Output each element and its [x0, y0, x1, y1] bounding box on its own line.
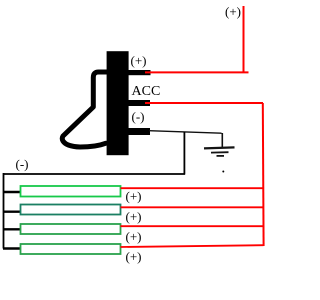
- switch pin (+) terminal stub: [128, 70, 151, 75]
- svg-text:(+): (+): [131, 53, 147, 68]
- wire (-) branch vertical down: [183, 132, 185, 175]
- switch pin (-) terminal stub: [128, 128, 150, 135]
- wire stub to tube 1: [3, 191, 21, 193]
- svg-text:(-): (-): [132, 109, 145, 124]
- svg-text:(+): (+): [126, 249, 142, 264]
- wire (-) horizontal black: [149, 131, 222, 134]
- tube lamp 1: [21, 186, 121, 197]
- tube lamp 4: [21, 244, 121, 254]
- tube lamp 2: [21, 205, 121, 215]
- wire tube 3 red: [121, 225, 264, 227]
- svg-text:ACC: ACC: [132, 84, 161, 99]
- wire tube 4 red: [121, 245, 264, 247]
- wire battery (+) horizontal red to switch: [145, 71, 249, 73]
- wire stub to tube 3: [3, 228, 21, 230]
- wire ACC red horizontal: [145, 102, 263, 104]
- switch pin ACC terminal stub: [128, 100, 150, 106]
- svg-text:(-): (-): [16, 157, 29, 172]
- wire battery (+) vertical red: [243, 6, 245, 73]
- svg-text:(+): (+): [225, 4, 241, 19]
- svg-text:(+): (+): [126, 189, 142, 204]
- wire ground drop vertical: [221, 133, 223, 147]
- wire ACC red vertical bus: [262, 103, 265, 246]
- ignition switch body bar: [107, 51, 129, 155]
- svg-text:(+): (+): [126, 209, 142, 224]
- wire left negative bus vertical: [3, 173, 5, 249]
- key outline: [62, 72, 107, 147]
- svg-text:(+): (+): [126, 229, 142, 244]
- wire stub to tube 2: [3, 210, 21, 212]
- node dot: [222, 171, 224, 173]
- wire tube 1 red: [121, 187, 264, 189]
- wire tube 2 red: [121, 206, 264, 208]
- ground symbol: [204, 147, 235, 156]
- wire stub to tube 4: [3, 247, 21, 249]
- tube lamp 3: [21, 224, 121, 234]
- wire (-) horizontal to left bus: [4, 173, 186, 175]
